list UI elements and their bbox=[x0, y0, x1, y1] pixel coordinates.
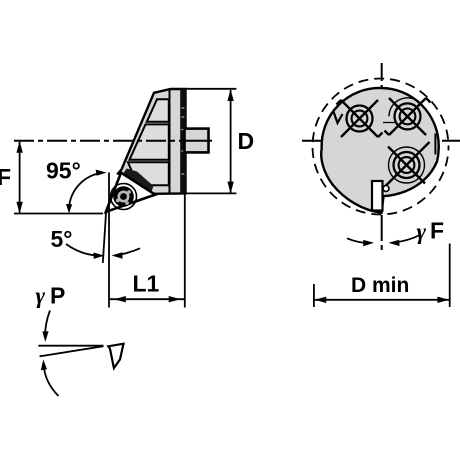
svg-text:γ: γ bbox=[36, 283, 46, 308]
lead angle reference vertical line bbox=[108, 173, 110, 308]
insert flank line (5 deg) bbox=[103, 210, 106, 263]
insert screw bbox=[111, 184, 137, 210]
head body (grey disc with cam relief) bbox=[321, 88, 439, 213]
cam step line at right edge bbox=[434, 134, 436, 155]
svg-text:L1: L1 bbox=[133, 270, 160, 296]
small insert profile bbox=[108, 344, 123, 368]
small pin hole next to tab bbox=[383, 186, 389, 192]
pocket serration P1 bbox=[147, 99, 169, 122]
svg-text:95°: 95° bbox=[46, 158, 81, 184]
svg-text:P: P bbox=[50, 283, 65, 309]
F dimension line with arrows bbox=[19, 142, 21, 213]
svg-text:D: D bbox=[238, 128, 255, 154]
D dimension line with arrows bbox=[230, 90, 232, 193]
gammaP arrow down bbox=[45, 311, 50, 338]
pin (stud) bbox=[185, 129, 209, 153]
svg-text:D min: D min bbox=[351, 274, 409, 297]
horizontal centerline bbox=[302, 140, 460, 142]
thin pocket line between screws bbox=[383, 122, 396, 124]
5 degree arcs with arrows bbox=[66, 244, 100, 256]
clamp dark wedge above insert bbox=[123, 169, 154, 192]
D min extension lines bbox=[313, 284, 315, 307]
F dimension: bottom extension line bbox=[14, 213, 103, 215]
screw top-left bbox=[337, 100, 383, 137]
flange hole ticks bbox=[181, 108, 184, 174]
gammaF arrows bbox=[347, 238, 369, 243]
D dimension extension lines bbox=[186, 88, 237, 90]
flange dark band bbox=[180, 89, 186, 193]
95 degree arc with arrows bbox=[69, 173, 101, 208]
vertical centerline bbox=[381, 63, 383, 250]
svg-text:5°: 5° bbox=[51, 226, 73, 252]
screw bottom-right bbox=[384, 142, 430, 188]
insert (white triangle) bbox=[106, 173, 155, 212]
body of head (grey wedge) bbox=[118, 89, 186, 194]
rake curved arrow up bbox=[44, 364, 59, 396]
rake wedge line bbox=[40, 346, 104, 356]
svg-text:F: F bbox=[0, 164, 11, 190]
rake reference line bbox=[38, 345, 103, 347]
pocket notch V upper left bbox=[334, 112, 343, 124]
svg-text:F: F bbox=[430, 218, 444, 244]
L1 dimension line with arrows bbox=[109, 298, 185, 300]
L1 extension line right bbox=[184, 194, 186, 308]
D min dashed circle bbox=[313, 79, 449, 215]
pocket serration P3 bbox=[128, 162, 169, 185]
D min dimension line with arrows bbox=[315, 299, 450, 301]
screw top-right bbox=[385, 98, 431, 135]
centerline (dash-dot) left view bbox=[14, 140, 182, 142]
face separation line bbox=[169, 89, 171, 193]
svg-text:γ: γ bbox=[417, 219, 427, 244]
pocket serration P2 bbox=[130, 124, 169, 159]
bottom tab bbox=[372, 181, 383, 211]
